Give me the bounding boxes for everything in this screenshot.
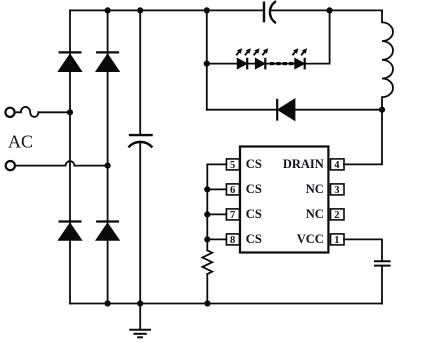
series capacitor C1 (top rail, straight plate): [263, 2, 265, 23]
svg-text:CS: CS: [246, 207, 262, 221]
svg-text:NC: NC: [306, 207, 324, 221]
wire freewheel diode row: [207, 109, 382, 111]
junction node CS bus pin6: [204, 186, 210, 192]
AC terminal (neutral): [6, 161, 15, 170]
pin 8 box: [226, 234, 239, 246]
wire top rail left segment (bridge top to series cap): [70, 9, 264, 11]
pin 5 box: [226, 159, 239, 171]
wire CS pin 8 stub: [207, 238, 226, 240]
svg-text:2: 2: [334, 210, 339, 221]
bulk capacitor C2 curved plate: [128, 142, 152, 148]
wire right bridge leg vertical: [107, 10, 109, 303]
svg-text:1: 1: [334, 235, 339, 246]
op-amp/controller U1 body: [240, 147, 328, 253]
svg-text:VCC: VCC: [297, 232, 324, 246]
svg-text:AC: AC: [8, 132, 33, 152]
svg-text:NC: NC: [306, 182, 324, 196]
pin 7 box: [226, 209, 239, 221]
dashed continuation of LED string: [270, 62, 294, 65]
bridge diode D2 (top-right): [96, 52, 119, 71]
pin 6 box: [226, 184, 239, 196]
wire LED string row: [207, 63, 330, 65]
wire resistor to ground rail: [206, 274, 208, 304]
LED D5: [237, 58, 247, 70]
wire bulk capacitor leg upper: [139, 10, 141, 135]
wire LED string right riser: [329, 10, 331, 63]
pin 1 box: [331, 234, 345, 246]
wire left bridge leg vertical: [69, 10, 71, 303]
wire VCC pin 1 to output cap: [344, 239, 382, 261]
wire output cap to ground rail: [381, 266, 383, 304]
LED emission arrows (over D6): [254, 49, 268, 56]
svg-text:CS: CS: [246, 182, 262, 196]
wire CS pin 5 stub: [207, 163, 226, 165]
LED emission arrows (over D7): [292, 49, 306, 56]
junction node ground rail / ground stub: [137, 300, 143, 306]
wire fuse to left bridge leg: [38, 111, 70, 113]
svg-text:8: 8: [230, 235, 235, 246]
junction node top rail / right bridge leg: [105, 7, 111, 13]
wire top rail right segment (series cap to top-right corner): [270, 9, 382, 11]
junction node top rail / LED riser: [327, 7, 333, 13]
inductor L (buck coil): [382, 10, 393, 109]
svg-text:4: 4: [334, 160, 340, 171]
pin 3 box: [331, 184, 345, 196]
junction node LED string left: [204, 61, 210, 67]
junction node AC neutral / right leg: [105, 163, 111, 169]
freewheel diode D8: [277, 99, 295, 121]
svg-text:CS: CS: [246, 157, 262, 171]
wire bulk capacitor leg lower: [139, 142, 141, 303]
wire DRAIN pin 4 to inductor node: [344, 110, 382, 165]
wire CS pin 7 stub: [207, 213, 226, 215]
junction node ground rail / resistor: [204, 300, 210, 306]
ground: [129, 330, 151, 338]
svg-text:7: 7: [230, 210, 235, 221]
junction node ground rail / right leg: [105, 300, 111, 306]
bridge diode D1 (top-left): [58, 52, 81, 71]
wire CS bus vertical: [206, 164, 208, 250]
wire CS pin 6 stub: [207, 188, 226, 190]
svg-text:6: 6: [230, 185, 235, 196]
junction node top rail / bulk cap: [137, 7, 143, 13]
junction node AC live / left leg: [67, 109, 73, 115]
bridge diode D4 (bottom-right): [96, 222, 119, 241]
svg-text:5: 5: [230, 160, 235, 171]
svg-text:3: 3: [334, 185, 339, 196]
junction node inductor / diode / drain: [379, 107, 385, 113]
wire LED bus vertical (top rail down to freewheel diode): [206, 10, 208, 109]
junction node CS bus pin8: [204, 236, 210, 242]
wire AC live to bridge: [15, 111, 21, 113]
junction node CS bus pin7: [204, 211, 210, 217]
output capacitor C3 (VCC): [374, 261, 391, 265]
wire bottom ground rail: [70, 303, 382, 305]
fuse squiggle: [21, 107, 39, 117]
LED D7: [295, 58, 305, 70]
bulk capacitor C2 straight plate: [129, 134, 153, 136]
LED D6: [255, 58, 265, 70]
svg-text:CS: CS: [246, 232, 262, 246]
wire AC neutral with hop over left leg: [15, 161, 108, 165]
svg-text:DRAIN: DRAIN: [283, 157, 324, 171]
LED emission arrows (over D5): [236, 49, 250, 56]
series capacitor C1 curved plate: [270, 1, 276, 23]
pin 4 box: [331, 159, 345, 171]
pin 2 box: [331, 209, 345, 221]
ground stub: [139, 304, 141, 330]
bridge diode D3 (bottom-left): [58, 222, 81, 241]
resistor R (CS sense): [202, 250, 212, 274]
junction node top rail / LED bus: [204, 7, 210, 13]
AC terminal (live): [5, 108, 14, 117]
